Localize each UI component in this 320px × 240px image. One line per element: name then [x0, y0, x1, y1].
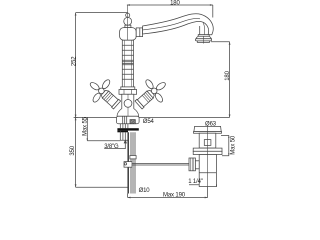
spout body junction: [120, 28, 137, 41]
badge circle: [124, 100, 132, 108]
drain centerline: [207, 126, 209, 187]
faucet neck: [125, 25, 131, 28]
leader 3/8G: [104, 140, 126, 148]
base flange: [116, 116, 139, 123]
drain neck: [199, 133, 216, 148]
drain tailpiece: [199, 155, 216, 187]
horizontal pop-up rod: [132, 164, 190, 165]
shank lines in flange: [123, 116, 127, 123]
spout root collar: [136, 28, 142, 37]
svg-text:180: 180: [170, 0, 180, 6]
svg-text:Max 50: Max 50: [230, 135, 236, 155]
svg-text:Max 190: Max 190: [163, 193, 186, 199]
drain washer rings: [193, 148, 222, 154]
extension line spout outlet level: [211, 41, 230, 43]
dim line Max55: [87, 117, 120, 140]
svg-text:Ø54: Ø54: [143, 119, 155, 125]
svg-text:1 1/4": 1 1/4": [188, 179, 203, 185]
svg-text:252: 252: [71, 56, 77, 66]
supply hose: [131, 132, 135, 193]
svg-text:350: 350: [70, 145, 76, 155]
svg-text:Ø10: Ø10: [139, 188, 151, 194]
hose coupling: [130, 156, 136, 159]
svg-text:3/8"G: 3/8"G: [104, 144, 119, 150]
dim line 180 top horizontal: [127, 4, 213, 6]
right handle assembly: [135, 72, 167, 109]
rod nut on tailpiece: [189, 158, 199, 171]
body centerline: [127, 95, 129, 117]
dim line Max190 bottom: [128, 187, 208, 198]
spout outlet collar: [198, 35, 209, 37]
svg-text:Max 55: Max 55: [83, 116, 89, 136]
dim line 180 right vertical: [229, 42, 231, 118]
svg-text:180: 180: [225, 70, 231, 80]
overflow slot: [204, 140, 211, 146]
faucet finial ball large: [124, 17, 132, 25]
left handle assembly: [89, 72, 121, 109]
extension line top finial level: [76, 12, 128, 14]
dim line 252/350 left vertical: [74, 13, 78, 188]
faucet column: [122, 40, 133, 87]
drain cap: [194, 126, 222, 133]
faucet center body: [117, 94, 139, 116]
dimension arrowheads: [75, 4, 231, 198]
shank threaded section: [120, 131, 128, 141]
gasket black band: [117, 128, 138, 132]
rod clamp: [124, 162, 132, 168]
leader 1 1/4: [189, 185, 217, 187]
spout tube: [143, 14, 214, 35]
shank below flange: [120, 124, 128, 129]
extension line hose bottom: [76, 186, 128, 188]
clamp hatch block: [130, 120, 135, 124]
pop-up rod vertical: [127, 132, 129, 193]
svg-text:Ø63: Ø63: [205, 121, 217, 127]
faucet centerline: [127, 5, 129, 40]
deck line: [76, 116, 230, 118]
spout outlet bell: [195, 36, 211, 43]
column collar nut: [119, 87, 137, 94]
dim bracket Max50: [221, 136, 229, 156]
extension line spout tip: [212, 5, 214, 18]
faucet finial ball small: [126, 13, 130, 17]
